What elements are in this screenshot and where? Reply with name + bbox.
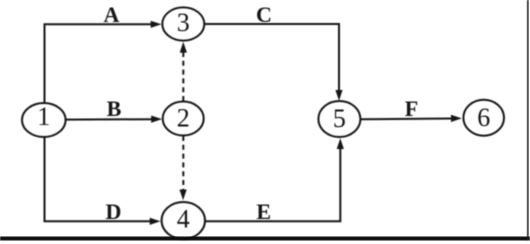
arrowhead into node 4	[150, 218, 161, 225]
svg-text:D: D	[106, 199, 122, 224]
arrowhead into node 5 bottom	[337, 138, 344, 149]
node 4 circle	[162, 202, 205, 239]
node 1 circle	[22, 103, 66, 137]
svg-text:E: E	[256, 199, 271, 224]
wire 5 to 6 (activity F)	[361, 118, 454, 121]
svg-text:C: C	[256, 2, 272, 27]
svg-text:1: 1	[37, 102, 50, 131]
node 2 circle	[163, 102, 204, 136]
wire 1-up-right to 3 (activity A)	[45, 24, 154, 104]
arrowhead into node 2	[151, 116, 162, 123]
svg-text:B: B	[107, 96, 122, 121]
arrowhead into node 6	[451, 115, 462, 122]
wire 3-right-down to 5 (activity C)	[204, 24, 339, 92]
arrowhead into node 4 top	[180, 190, 187, 201]
dashed wire 2 to 3 (dummy)	[182, 52, 184, 101]
svg-text:F: F	[405, 96, 418, 121]
dashed wire 2 to 4 (dummy)	[182, 136, 184, 190]
wire 1 to 2 (activity B)	[66, 118, 154, 120]
svg-text:2: 2	[177, 104, 190, 133]
arrowhead into node 3	[151, 21, 162, 28]
svg-text:5: 5	[333, 104, 346, 133]
arrowhead into node 5 top	[335, 90, 342, 101]
arrowhead into node 3 bottom	[180, 42, 187, 53]
svg-text:A: A	[104, 2, 120, 27]
svg-text:3: 3	[177, 8, 190, 37]
svg-text:6: 6	[477, 103, 490, 132]
node 3 circle	[162, 7, 204, 40]
right border line	[527, 0, 529, 240]
svg-text:4: 4	[177, 205, 190, 234]
wire 4-right-up to 5 (activity E)	[205, 147, 340, 221]
wire 1-down-right to 4 (activity D)	[45, 137, 153, 221]
node 5 circle	[318, 101, 360, 137]
node 6 circle	[463, 100, 504, 136]
bottom border bar	[0, 237, 530, 241]
